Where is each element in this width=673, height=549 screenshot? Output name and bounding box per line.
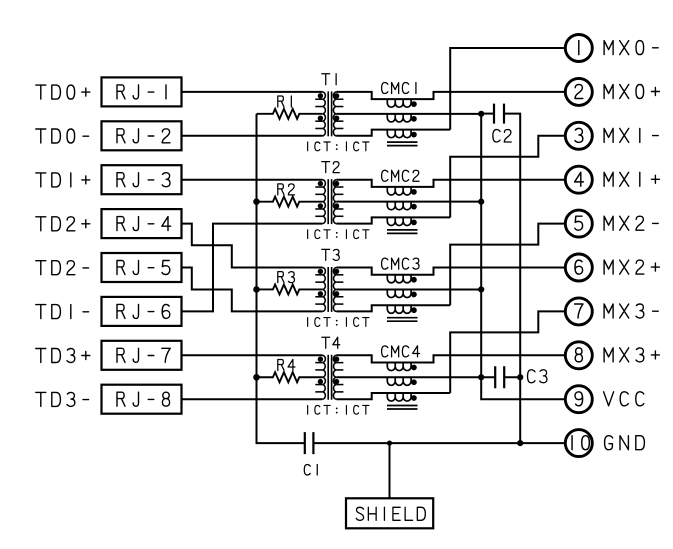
net MX0+ label: [604, 85, 659, 99]
junction R2 on rail: [253, 198, 260, 205]
wire pin7 MX3- to CMC4: [450, 311, 565, 393]
pin 4 circle: [565, 166, 592, 193]
pin 6 circle: [565, 254, 592, 281]
RJ-1 connector box: [102, 77, 182, 106]
net MX2- label: [604, 216, 658, 230]
RJ-2 connector box: [102, 121, 182, 150]
pin 9 circle: [565, 386, 592, 413]
RJ-4 connector box: [102, 209, 182, 238]
wire RJ-2 to T1 primary bottom: [182, 135, 323, 137]
junction shield stub: [387, 441, 392, 446]
RJ-8 connector box: [102, 385, 182, 414]
net VCC label: [604, 392, 644, 406]
net MX0- label: [604, 41, 658, 55]
capacitor C3: [495, 366, 504, 388]
junction ct rail ch3: [478, 374, 484, 380]
pin 5 circle: [565, 210, 592, 237]
node TD1- label: [36, 305, 89, 319]
net MX3+ label: [604, 348, 659, 362]
pin 8 circle: [565, 342, 592, 369]
RJ-5 connector box: [102, 253, 182, 282]
junction R3 on rail: [253, 286, 260, 293]
wire RJ-6 to T2 primary bottom (jogged): [182, 224, 323, 312]
wire RJ-4 to T3 primary top (jogged): [182, 224, 323, 268]
net MX1- label: [604, 128, 658, 142]
transformer T3 (ICT:ICT): [308, 249, 369, 326]
RJ-3 connector box: [102, 165, 182, 194]
node TD0- label: [36, 129, 89, 143]
wire RJ-5 to T3 primary bottom (jogged): [182, 268, 323, 312]
net MX3- label: [604, 304, 658, 318]
junction C2-GND rail on GND wire: [517, 440, 523, 446]
node TD1+ label: [36, 173, 90, 187]
node TD0+ label: [36, 85, 90, 99]
pin 7 circle: [565, 298, 592, 325]
node TD3- label: [36, 392, 89, 406]
wire C2 to GND rail: [504, 114, 520, 444]
pin 3 circle: [565, 122, 592, 149]
capacitor C2: [494, 104, 504, 124]
transformer T2 (ICT:ICT): [308, 162, 369, 239]
wire RJ-1 to T1 primary top: [182, 91, 323, 93]
net GND label: [605, 436, 645, 450]
wire ct rail to C3: [481, 376, 495, 378]
junction ct rail ch0: [478, 111, 484, 117]
wire C3 to GND rail: [504, 376, 520, 378]
node TD2+ label: [36, 217, 90, 231]
wire pin1 MX0- to CMC1: [450, 48, 565, 130]
pin 2 circle: [565, 78, 592, 105]
pin 1 circle: [565, 35, 592, 62]
wire pin5 MX2- to CMC3: [450, 224, 565, 306]
node TD2- label: [36, 261, 89, 275]
transformer T1 (ICT:ICT): [308, 74, 369, 151]
pin 10 circle: [565, 430, 592, 457]
node TD3+ label: [36, 349, 90, 363]
wire RJ-8 to T4 primary bottom: [182, 398, 323, 400]
SHIELD box: [346, 498, 433, 528]
resistor R1: [257, 109, 323, 119]
transformer T4 (ICT:ICT): [308, 337, 369, 414]
RJ-6 connector box: [102, 297, 182, 326]
node center-tap termination rail: [257, 114, 305, 443]
junction R4 on rail: [253, 374, 260, 381]
wire shield stub: [389, 443, 391, 498]
resistor R3: [257, 284, 323, 294]
wire pin3 MX1- to CMC2: [450, 136, 565, 218]
wire C1 to GND pin 10: [313, 442, 565, 444]
net MX1+ label: [604, 172, 659, 186]
wire RJ-7 to T4 primary top: [182, 354, 323, 356]
net MX2+ label: [604, 260, 659, 274]
node VCC center-tap rail: [481, 114, 565, 400]
wire RJ-3 to T2 primary top: [182, 179, 323, 181]
resistor R4: [257, 372, 323, 382]
choke CMC4: [336, 346, 565, 409]
wire ct rail to C2: [481, 113, 494, 115]
resistor R2: [257, 197, 323, 207]
choke CMC3: [336, 258, 565, 321]
junction ct rail ch2: [478, 286, 484, 292]
choke CMC1: [336, 83, 565, 146]
RJ-7 connector box: [102, 341, 182, 370]
choke CMC2: [336, 170, 565, 233]
junction C3 right: [517, 374, 523, 380]
junction ct rail ch1: [478, 199, 484, 205]
capacitor C1: [305, 432, 314, 454]
